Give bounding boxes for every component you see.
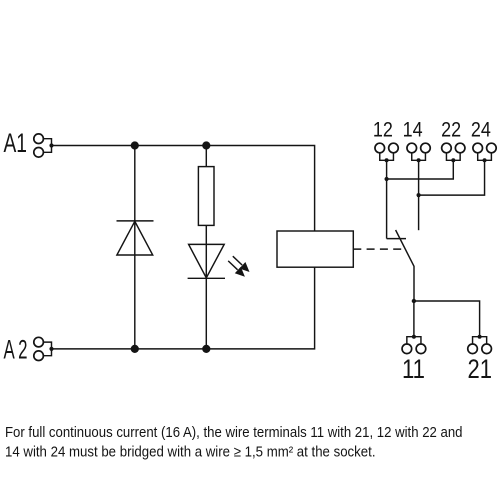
dashed actuator link from coil (353, 248, 401, 250)
diode V1 body (117, 221, 153, 255)
wire: terminal 12 drop to NC contact (386, 160, 388, 238)
LED D1 emission arrow 2 (228, 261, 245, 277)
terminal 12 clamp circles (375, 143, 398, 153)
terminal 12 bracket wire (380, 153, 394, 161)
svg-text:22: 22 (441, 118, 461, 141)
terminal 14 bracket wire (412, 153, 426, 161)
terminal 14 clamp circles (407, 143, 430, 153)
wire: resistor bottom lead through LED to bottom rail (205, 225, 207, 349)
svg-text:24: 24 (471, 118, 491, 141)
wire: resistor top lead (205, 146, 207, 167)
resistor R1 body (198, 167, 214, 226)
terminal 21 clamp circles (468, 344, 492, 354)
terminal A2 bracket wire (43, 342, 51, 356)
svg-text:For full continuous current (1: For full continuous current (16 A), the … (5, 425, 463, 441)
terminal 24 bracket wire (478, 153, 492, 161)
svg-text:A 2: A 2 (4, 334, 28, 364)
LED D1 emission arrow 1 (233, 256, 250, 272)
wire: link 12 to 22 (387, 160, 454, 179)
node: 14-24 link (417, 193, 421, 197)
node at A2 bracket (49, 347, 53, 351)
node: 12-22 link (385, 177, 389, 181)
svg-text:14 with 24 must be bridged wit: 14 with 24 must be bridged with a wire ≥… (5, 445, 376, 461)
LED D1 body (189, 244, 225, 277)
node: top rail / resistor branch (202, 141, 210, 149)
terminal 24 clamp circles (473, 143, 496, 153)
node: bottom rail / diode branch (131, 345, 139, 353)
terminal 21 bracket wire (473, 337, 487, 344)
terminal 11 clamp circles (402, 344, 426, 354)
svg-text:12: 12 (373, 118, 393, 141)
terminal A1 bracket wire (43, 139, 51, 153)
terminal 22 bracket wire (446, 153, 460, 161)
wire: common to terminal 21 (414, 301, 480, 337)
svg-text:14: 14 (403, 118, 423, 141)
switch blade movable contact (396, 230, 414, 301)
node at A1 bracket (49, 143, 53, 147)
svg-text:21: 21 (468, 354, 493, 384)
terminal A2 clamp circles (34, 337, 44, 360)
wire: terminal 14 drop to NO contact (418, 160, 420, 230)
wire: diode branch vertical (134, 146, 136, 349)
diode V1 cathode bar (117, 220, 154, 222)
node: common junction (412, 299, 416, 303)
wire: link 14 to 24 (419, 160, 485, 195)
LED D1 cathode bar (188, 277, 225, 279)
node at terminal 12 (385, 158, 389, 162)
terminal A1 clamp circles (34, 134, 44, 157)
node at terminal 14 (417, 158, 421, 162)
relay coil K1 (277, 231, 353, 267)
wire: top rail from A1 to relay coil (52, 146, 315, 232)
node: top rail / diode branch (131, 141, 139, 149)
node at terminal 24 (483, 158, 487, 162)
node at terminal 22 (451, 158, 455, 162)
terminal 11 bracket wire (407, 337, 421, 344)
svg-text:11: 11 (402, 354, 425, 384)
svg-text:A1: A1 (4, 128, 28, 158)
terminal 22 clamp circles (442, 143, 465, 153)
node at terminal 11 (412, 335, 416, 339)
wire: coil bottom to bottom rail, bottom rail to A2 (52, 267, 315, 349)
node at terminal 21 (478, 335, 482, 339)
node: bottom rail / LED branch (202, 345, 210, 353)
wire: common to terminal 11 (413, 301, 415, 337)
NC fixed contact bar (387, 238, 406, 240)
